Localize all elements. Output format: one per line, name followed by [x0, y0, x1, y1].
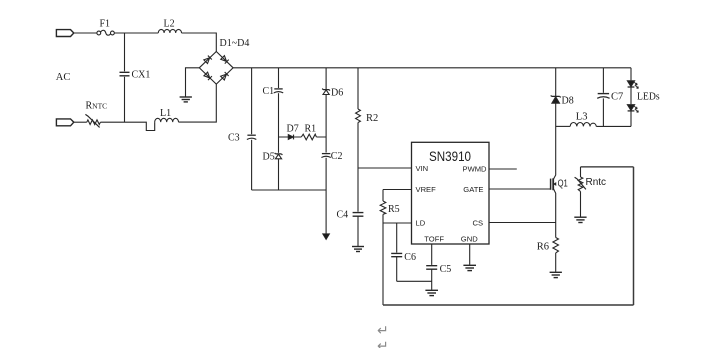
wire to bridge bottom [179, 84, 217, 122]
svg-text:D5: D5 [263, 152, 275, 163]
svg-text:C5: C5 [440, 264, 452, 275]
svg-text:GND: GND [461, 234, 478, 243]
svg-text:C1: C1 [263, 86, 275, 97]
wire Rntc top to right rail [581, 166, 634, 168]
transistor Q1 (MOSFET) [551, 173, 556, 223]
inductor L2 [158, 29, 181, 33]
wire C6 to TOFF node [397, 280, 432, 282]
svg-text:TOFF: TOFF [424, 234, 444, 243]
capacitor C7 [597, 68, 609, 127]
inductor L3 [556, 122, 631, 126]
svg-text:L3: L3 [576, 111, 588, 122]
wire [114, 32, 158, 34]
wire CS [489, 222, 556, 224]
ground (R6) [550, 272, 562, 277]
capacitor C3 [247, 68, 256, 190]
ground (GND pin) [463, 265, 476, 270]
wire R5 branch down to bottom rail [382, 223, 384, 305]
svg-text:LEDs: LEDs [637, 92, 660, 103]
capacitor C2 [321, 154, 330, 190]
top output rail [233, 67, 631, 69]
wire VIN [358, 167, 412, 169]
svg-text:C7: C7 [611, 92, 623, 103]
svg-text:R2: R2 [366, 113, 378, 124]
svg-text:C6: C6 [404, 252, 416, 263]
capacitor C1 [274, 68, 283, 153]
wire [74, 121, 87, 123]
svg-text:C4: C4 [337, 210, 349, 221]
LED 2 [627, 105, 634, 111]
ground (bridge) [180, 97, 192, 102]
wire GATE to Q1 [489, 188, 550, 190]
wire TOFF [431, 244, 433, 265]
wire bridge left to ground [186, 68, 200, 97]
fuse F1 [97, 30, 114, 35]
resistor R5 [380, 190, 386, 224]
wire [74, 32, 97, 34]
capacitor C5 [426, 266, 437, 290]
wire VREF [383, 189, 412, 191]
wire with jog [100, 122, 154, 130]
op-amp U1 : IC SN3910 box [412, 142, 490, 244]
svg-text:L1: L1 [160, 108, 171, 119]
wire LD [383, 222, 412, 224]
diode D8 (zener) [551, 68, 561, 173]
svg-text:L2: L2 [164, 19, 175, 30]
wire bottom feedback rail [383, 304, 634, 306]
ground (C4) [352, 247, 364, 252]
LED chain [627, 68, 638, 127]
svg-text:↵: ↵ [377, 322, 389, 338]
svg-text:VREF: VREF [416, 185, 437, 194]
capacitor C6 [391, 223, 402, 281]
svg-text:GATE: GATE [463, 185, 483, 194]
svg-text:↵: ↵ [377, 338, 389, 348]
svg-text:R1: R1 [305, 124, 317, 135]
thermistor Rntc (output) [575, 167, 586, 217]
capacitor C4 [353, 213, 364, 246]
capacitor CX1 [120, 33, 130, 122]
svg-text:VIN: VIN [416, 164, 429, 173]
svg-text:R5: R5 [388, 204, 400, 215]
svg-text:F1: F1 [100, 19, 111, 30]
resistor R1 [301, 134, 316, 140]
svg-text:D7: D7 [287, 124, 299, 135]
diode D5 (zener) [275, 153, 283, 190]
svg-text:C2: C2 [331, 151, 343, 162]
ground (Rntc) [574, 217, 586, 222]
resistor R2 [356, 68, 361, 212]
ground (C5) [425, 290, 438, 295]
wire [182, 33, 217, 52]
svg-text:D6: D6 [331, 88, 343, 99]
LED 1 [627, 81, 634, 87]
thermistor RNTC [85, 114, 100, 127]
bridge rectifier D1~D4 [199, 52, 233, 85]
wire D7/R1 branch [279, 136, 327, 138]
diode D7 [288, 135, 293, 140]
svg-text:RNTC: RNTC [86, 101, 108, 112]
svg-text:CX1: CX1 [132, 70, 151, 81]
svg-text:R6: R6 [537, 241, 549, 252]
svg-text:Rntc: Rntc [586, 177, 607, 188]
svg-text:D8: D8 [562, 95, 574, 106]
inductor L1 [155, 118, 179, 122]
svg-text:AC: AC [56, 72, 71, 83]
wire GND pin [469, 244, 471, 265]
svg-text:LD: LD [416, 219, 426, 228]
svg-text:SN3910: SN3910 [429, 148, 471, 164]
wire bottom of snubber section [252, 190, 327, 234]
svg-text:Q1: Q1 [558, 177, 568, 189]
diode D6 (zener) [322, 68, 330, 153]
wire right rail down [633, 167, 635, 305]
svg-text:PWMD: PWMD [463, 164, 488, 173]
AC input terminal (top) [56, 30, 73, 37]
svg-text:D1~D4: D1~D4 [220, 38, 250, 49]
svg-text:C3: C3 [228, 133, 240, 144]
AC input terminal (bottom) [56, 119, 73, 126]
arrow ground [323, 234, 330, 240]
resistor R6 [553, 223, 559, 272]
wire PWMD stub [489, 168, 517, 170]
svg-text:CS: CS [473, 219, 484, 228]
